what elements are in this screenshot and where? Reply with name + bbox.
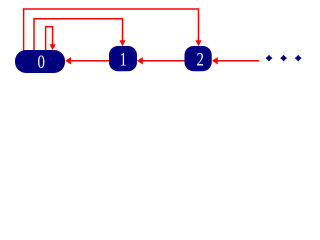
arrow 0 to 1 (inner top loop wire)	[34, 19, 126, 51]
ellipsis dot 2	[280, 55, 287, 62]
state node 2	[185, 46, 212, 71]
ellipsis dot 1	[266, 55, 273, 62]
svg-text:1: 1	[119, 49, 126, 70]
arrow 0 to 2 (outer top loop wire)	[24, 9, 202, 51]
svg-text:0: 0	[37, 51, 44, 72]
node 0 label	[37, 51, 44, 72]
self-loop arrow 0 to 0	[46, 27, 56, 51]
arrow from ellipsis to 2 (wire)	[212, 57, 259, 65]
node 1 label	[119, 49, 126, 70]
arrow 1 to 0 (wire)	[65, 57, 109, 65]
ellipsis dot 3	[295, 55, 302, 62]
state node 0	[15, 50, 65, 73]
svg-text:2: 2	[196, 49, 203, 70]
node 2 label	[196, 49, 203, 70]
arrow 2 to 1 (wire)	[137, 57, 185, 65]
state node 1	[109, 46, 137, 71]
